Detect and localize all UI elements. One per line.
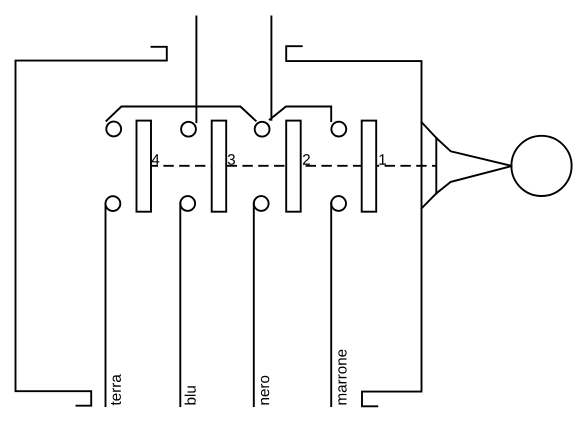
label 2 — [303, 154, 310, 165]
actuator linkage upper — [436, 138, 511, 166]
contact bar 3 — [212, 121, 227, 212]
terminal circle: pole 3 top — [181, 122, 196, 137]
actuator cone lower outline — [422, 193, 437, 208]
contact bar 2 — [286, 121, 301, 212]
actuator cone inner edge — [435, 138, 437, 194]
label blu — [185, 386, 196, 404]
wire W3: top lead down to pole-3 terminal — [195, 17, 197, 123]
wire W6: bus link from pole-2 terminal to pole-1 terminal — [270, 107, 331, 122]
wire: nero lead — [253, 204, 255, 407]
knob circle — [511, 136, 571, 196]
label terra — [111, 374, 121, 405]
contact bar 1 — [362, 121, 377, 212]
label 4 — [152, 154, 160, 164]
terminal circle: pole 3 bottom — [180, 196, 195, 211]
label 3 — [228, 154, 235, 165]
label nero — [261, 376, 269, 405]
terminal circle: pole 2 bottom — [254, 196, 269, 211]
actuator cone upper outline — [422, 122, 437, 138]
wire: blu lead — [179, 204, 181, 407]
contact bar 4 — [137, 121, 152, 212]
terminal circle: pole 4 bottom — [106, 196, 121, 211]
actuator linkage lower — [436, 166, 511, 193]
wire W2: right outer conductor with open hooks — [286, 46, 421, 406]
wire W5: top bus joining terminals of poles 4..2 — [106, 107, 255, 121]
wire W1: left outer conductor with open hooks — [16, 47, 167, 406]
dashed actuator centerline — [148, 165, 437, 167]
terminal circle: pole 2 top — [255, 122, 270, 137]
wire: terra lead — [105, 204, 107, 406]
label 1 — [379, 154, 386, 164]
terminal circle: pole 1 bottom — [331, 196, 346, 211]
terminal circle: pole 4 top — [106, 122, 121, 137]
wire W4: top lead down to pole-2 terminal — [270, 17, 272, 120]
wire: marrone lead — [330, 204, 332, 407]
terminal circle: pole 1 top — [331, 122, 346, 137]
label marrone — [338, 350, 346, 405]
